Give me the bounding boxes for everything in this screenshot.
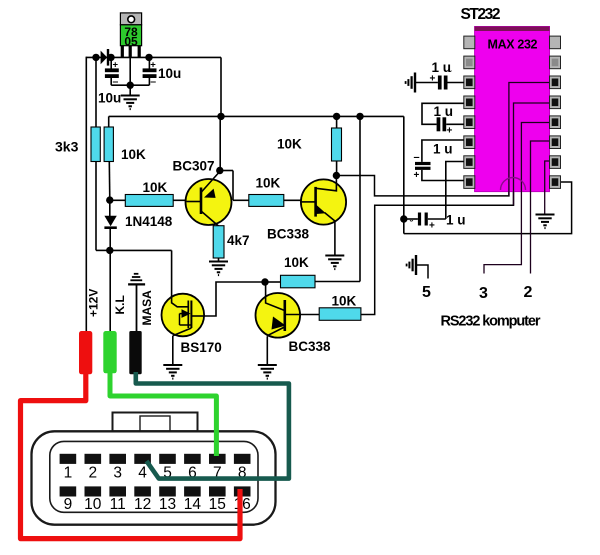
wire line D: rail corner down to cap node	[403, 116, 405, 233]
wire rail down to BC307 emitter	[219, 116, 221, 170]
inverted ground above MASA	[128, 274, 145, 285]
svg-text:BC338: BC338	[267, 227, 310, 242]
green wire banana plug	[103, 331, 116, 373]
svg-text:10K: 10K	[256, 176, 281, 191]
svg-text:3k3: 3k3	[55, 139, 79, 155]
ground under 7805	[121, 96, 140, 110]
svg-text:3: 3	[479, 285, 488, 302]
chassis ground at C3	[406, 73, 415, 93]
diode D2 1N4148	[104, 200, 116, 250]
wire cap bottoms to gnd node	[111, 84, 149, 86]
chip U1 ST232 body	[475, 27, 550, 192]
node dot C (7805 out)	[145, 54, 152, 61]
capacitor C4 1u (pin4/5)	[422, 103, 464, 136]
svg-text:BC338: BC338	[289, 339, 332, 354]
resistor R3 4k7 (vertical)	[213, 226, 224, 262]
ground under 4k7	[209, 262, 228, 276]
node dot L (cap C6 left)	[400, 215, 407, 222]
node dot G (BC307 emitter / +5)	[216, 167, 223, 174]
wire pin5 RS232	[416, 265, 428, 279]
black wire banana plug (MASA)	[129, 331, 141, 374]
node dot E (R2/R4/D2)	[106, 196, 113, 203]
node dot A (+12V / 3k3)	[92, 54, 99, 61]
chip pins left	[464, 36, 475, 188]
wire pin16 loop (right side)	[404, 182, 572, 234]
svg-text:15: 15	[209, 496, 226, 513]
node dot H (BC338 collector)	[333, 172, 340, 179]
red wire banana plug	[79, 331, 92, 374]
svg-text:MASA: MASA	[140, 290, 154, 326]
resistor R1 3k3 (vertical)	[91, 57, 110, 250]
chip internal trace pin13 (line C overlay)	[514, 103, 550, 205]
OBD connector tab inner	[140, 416, 170, 431]
ground under BC338 upper	[325, 256, 344, 270]
transistor Q1 BC307	[186, 171, 232, 226]
wire 7805 middle leg to ground	[129, 58, 131, 96]
capacitor C6 1u (bottom)	[404, 213, 446, 232]
wire Q4 emitter to ground	[266, 336, 268, 365]
svg-text:4k7: 4k7	[227, 233, 250, 248]
svg-text:5: 5	[422, 284, 431, 301]
wire BC338 emitter to ground	[334, 221, 336, 255]
diode D1 top-left	[101, 49, 110, 66]
capacitor C5 1u (pin6, vertical)	[414, 140, 464, 181]
wire K-line node to BS170	[110, 249, 172, 251]
svg-text:4: 4	[138, 465, 147, 482]
svg-text:10K: 10K	[332, 294, 357, 309]
chip bottom arc artifact	[501, 178, 526, 191]
svg-text:˘: ˘	[409, 219, 414, 231]
transistor Q4 BC338 (lower)	[255, 282, 319, 338]
OBD pins row 2	[60, 486, 251, 496]
svg-text:MAX 232: MAX 232	[488, 38, 538, 52]
node dot D (cap bottoms / gnd)	[127, 82, 134, 89]
ground below chip	[536, 215, 555, 229]
svg-text:13: 13	[159, 496, 176, 513]
svg-text:10: 10	[84, 496, 102, 513]
svg-text:1 u: 1 u	[446, 213, 466, 228]
node dot rail/7805	[217, 113, 224, 120]
ground under BS170	[163, 365, 182, 379]
resistor R4 10K (horizontal, BC307 base)	[110, 195, 187, 207]
svg-text:BS170: BS170	[181, 340, 222, 355]
resistor R5 10K (horizontal, BC338 base)	[249, 195, 301, 207]
transistor Q2 BC338 (upper)	[301, 176, 346, 225]
svg-text:+: +	[429, 221, 435, 232]
svg-text:1N4148: 1N4148	[125, 214, 173, 229]
wire line C: R8 to MAX pin	[361, 103, 550, 315]
capacitor C1 10u (left)	[105, 57, 119, 87]
svg-text:10u: 10u	[158, 66, 181, 81]
OBD connector tab outer	[113, 413, 198, 432]
svg-text:10u: 10u	[98, 91, 121, 106]
transistor Q3 BS170	[162, 294, 205, 337]
svg-text:10K: 10K	[284, 255, 309, 270]
svg-text:+: +	[150, 59, 156, 70]
wire line A: rail down to R7 right lead	[315, 116, 360, 281]
svg-text:–: –	[414, 152, 420, 164]
chip internal trace pin14 (line B overlay)	[509, 83, 550, 196]
wire 7805 out right then down to +5 rail	[220, 57, 222, 116]
svg-text:–: –	[150, 75, 156, 87]
red wire +12V to pin16	[21, 373, 241, 539]
OBD pin numbers row 2	[64, 496, 251, 513]
svg-text:1 u: 1 u	[433, 142, 453, 157]
svg-text:+: +	[414, 170, 420, 181]
node dot B (diode / cap in)	[107, 54, 114, 61]
svg-text:+: +	[113, 60, 119, 71]
wire top horizontal +12V feed	[86, 56, 221, 58]
wire K-line node down to K.L lead	[109, 250, 111, 331]
chip internal trace pin9 (gnd)	[545, 161, 550, 215]
regulator U2 7805	[120, 13, 141, 58]
resistor R6 10K (vertical, BC338 collector pull-up)	[332, 116, 342, 175]
svg-text:2: 2	[88, 465, 97, 482]
chip internal trace pin10	[531, 141, 550, 274]
resistor R2 10K (vertical, left)	[104, 116, 113, 200]
node dot K (Q4 base node)	[261, 278, 268, 285]
capacitor C3 1u (pin1)	[416, 69, 464, 90]
node dot F (K-line node)	[106, 247, 113, 254]
svg-text:+: +	[447, 126, 453, 137]
wire line B: BC338 collector to MAX pin	[336, 83, 549, 196]
wire +12V vertical left column	[85, 57, 87, 331]
green wire K.L to pin7	[110, 372, 216, 456]
OBD connector inner outline	[50, 441, 258, 512]
chip pins right	[550, 36, 561, 188]
svg-text:1: 1	[64, 465, 73, 482]
wire +5 rail	[109, 115, 404, 117]
OBD pins row 1	[60, 454, 251, 464]
wire BS170 drain to base node of Q4	[204, 282, 265, 316]
OBD pin numbers row 1	[64, 465, 247, 482]
svg-text:10K: 10K	[277, 137, 302, 152]
svg-text:1 u: 1 u	[432, 60, 452, 75]
svg-text:+: +	[430, 74, 436, 85]
svg-text:3: 3	[113, 465, 122, 482]
svg-text:11: 11	[110, 496, 126, 513]
svg-text:14: 14	[184, 496, 202, 513]
resistor R8 10K (horizontal, Q4 collector)	[319, 308, 361, 321]
svg-text:BC307: BC307	[173, 159, 215, 174]
capacitor C2 10u (right)	[143, 57, 157, 87]
wire MASA lead	[136, 284, 138, 331]
ground under Q4	[258, 365, 277, 379]
svg-text:+12V: +12V	[87, 289, 101, 317]
chassis ground RS232 pin5	[407, 255, 416, 275]
teal wire MASA to pin4	[136, 372, 289, 479]
node dot I (rail/R6)	[333, 113, 340, 120]
svg-text:ST232: ST232	[461, 6, 501, 23]
wire pin7L down to C6	[446, 162, 464, 220]
svg-text:1 u: 1 u	[434, 104, 454, 119]
svg-text:9: 9	[64, 496, 73, 513]
wire BS170 source to ground	[172, 336, 174, 365]
svg-text:K.L: K.L	[113, 295, 127, 314]
chip internal trace pin11	[484, 123, 550, 274]
wire BC307 node to R5	[220, 171, 249, 201]
svg-text:RS232 komputer: RS232 komputer	[441, 314, 541, 330]
svg-text:10K: 10K	[143, 180, 168, 195]
svg-text:10K: 10K	[121, 147, 146, 162]
resistor R7 10K (horizontal, Q4 base pull-up)	[265, 275, 315, 288]
node dot J (rail/line A)	[356, 113, 363, 120]
svg-text:2: 2	[524, 284, 533, 301]
OBD connector outer shell	[32, 431, 276, 524]
svg-text:12: 12	[134, 496, 151, 513]
